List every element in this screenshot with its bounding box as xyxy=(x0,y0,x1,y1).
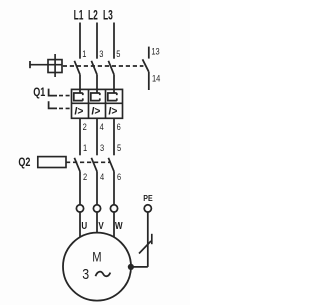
aux contact top stub pin 13 xyxy=(148,47,150,59)
svg-text:6: 6 xyxy=(117,171,121,182)
svg-text:4: 4 xyxy=(100,171,104,182)
svg-text:PE: PE xyxy=(143,193,152,203)
svg-text:4: 4 xyxy=(100,121,104,132)
wire trip block to Q2 pole 1 xyxy=(79,118,81,155)
junction dot PE at motor xyxy=(128,264,134,270)
svg-text:L1: L1 xyxy=(74,9,84,23)
motor AC tilde xyxy=(96,272,111,277)
manual actuator handle bar xyxy=(29,61,31,68)
wire pole2 blade to trip block xyxy=(96,75,98,93)
terminal circle W xyxy=(110,205,117,212)
svg-text:Q2: Q2 xyxy=(18,157,30,169)
release linkage dashed line 2 xyxy=(59,107,72,109)
svg-text:L3: L3 xyxy=(103,9,113,23)
wire pole1 blade to trip block xyxy=(79,75,81,93)
svg-text:I>: I> xyxy=(108,105,117,117)
wire trip block to Q2 pole 2 xyxy=(96,118,98,155)
breaker Q1 pole 1 contact blade xyxy=(74,61,80,75)
trip block row divider xyxy=(72,102,123,104)
svg-text:I>: I> xyxy=(74,105,83,117)
wire Q2 to motor terminal U xyxy=(79,171,81,204)
breaker Q1 pole 3 contact blade xyxy=(108,61,114,75)
manual actuator stem xyxy=(29,64,62,66)
manual actuator vertical axis xyxy=(54,54,56,77)
svg-text:M: M xyxy=(92,249,101,264)
terminal circle U xyxy=(76,205,83,212)
svg-text:I>: I> xyxy=(91,105,100,117)
svg-text:5: 5 xyxy=(117,142,121,153)
wire L1 to Q1 contact xyxy=(79,23,81,59)
release linkage hook 1 xyxy=(49,89,57,96)
trip block column divider 1 xyxy=(88,89,90,118)
svg-text:Q1: Q1 xyxy=(33,87,45,99)
breaker Q1 pole 2 contact blade xyxy=(91,61,97,75)
PE terminal circle xyxy=(144,205,151,212)
mechanical linkage dashed line Q1 xyxy=(63,65,144,67)
thermal overload element pole 2 xyxy=(91,93,100,101)
svg-text:2: 2 xyxy=(83,171,87,182)
contactor Q2 linkage dashed line xyxy=(66,161,111,163)
wire terminal W to motor xyxy=(113,212,115,237)
svg-text:13: 13 xyxy=(151,46,160,57)
svg-text:V: V xyxy=(98,220,103,231)
thermal overload element pole 1 xyxy=(74,93,83,101)
aux contact blade xyxy=(143,59,149,72)
manual actuator box xyxy=(48,60,62,73)
wire pole3 blade to trip block xyxy=(113,75,115,93)
motor M1 circle xyxy=(63,233,131,301)
wire Q2 to motor terminal W xyxy=(113,171,115,204)
contactor Q2 pole 2 contact blade xyxy=(91,158,97,172)
release linkage dashed line 1 xyxy=(59,95,72,97)
PE conductor tick mark xyxy=(151,234,153,244)
thermal overload element pole 3 xyxy=(108,93,117,101)
wire trip block to Q2 pole 3 xyxy=(113,118,115,155)
svg-text:1: 1 xyxy=(83,142,87,153)
svg-text:3: 3 xyxy=(82,266,89,282)
wire PE to motor frame xyxy=(131,266,148,268)
contactor Q2 pole 1 contact blade xyxy=(74,158,80,172)
wire terminal U to motor xyxy=(79,212,81,237)
svg-text:3: 3 xyxy=(99,48,103,59)
PE conductor slash mark xyxy=(139,241,151,254)
svg-text:3: 3 xyxy=(100,142,104,153)
wire L2 to Q1 contact xyxy=(96,23,98,59)
release linkage hook 2 xyxy=(49,101,57,108)
svg-text:2: 2 xyxy=(83,121,87,132)
trip block outline xyxy=(72,89,123,118)
trip block column divider 2 xyxy=(105,89,107,118)
svg-text:14: 14 xyxy=(152,73,161,84)
aux contact bottom stub pin 14 xyxy=(148,72,150,90)
svg-text:U: U xyxy=(81,220,87,231)
svg-text:5: 5 xyxy=(116,48,120,59)
svg-text:W: W xyxy=(115,220,123,231)
svg-text:L2: L2 xyxy=(88,9,98,23)
wire terminal V to motor xyxy=(96,212,98,233)
terminal circle V xyxy=(93,205,100,212)
wire L3 to Q1 contact xyxy=(113,23,115,59)
svg-text:6: 6 xyxy=(117,121,121,132)
contactor Q2 pole 3 contact blade xyxy=(108,158,114,172)
svg-text:1: 1 xyxy=(82,48,86,59)
contactor Q2 coil xyxy=(38,157,66,168)
wire Q2 to motor terminal V xyxy=(96,171,98,204)
PE conductor wire xyxy=(147,212,149,267)
